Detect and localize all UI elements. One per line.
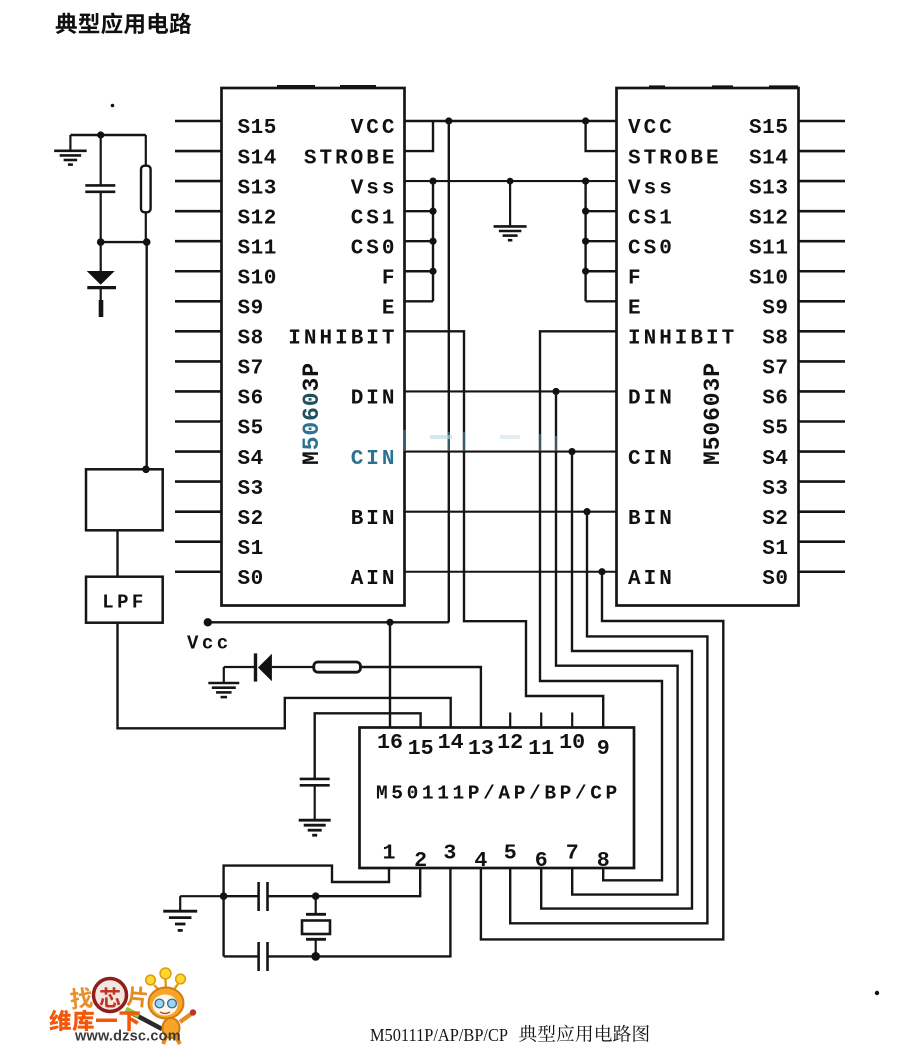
svg-text:9: 9 bbox=[597, 736, 610, 761]
wire C3 to U3 pin2 bbox=[268, 868, 421, 896]
svg-text:F: F bbox=[628, 267, 644, 290]
node C1 top bbox=[97, 131, 104, 138]
wire U1 INHIBIT to U3 pin9 bbox=[405, 331, 604, 727]
svg-text:S14: S14 bbox=[749, 147, 788, 170]
resistor R1 bottom lead bbox=[145, 212, 147, 242]
svg-text:16: 16 bbox=[377, 730, 403, 755]
node Vss mid bbox=[507, 178, 514, 185]
scan speck right bbox=[875, 991, 879, 995]
crystal X1 bottom lead bbox=[315, 939, 317, 956]
node crystal top bbox=[312, 892, 320, 900]
node crystal bottom bbox=[311, 952, 320, 961]
svg-text:DIN: DIN bbox=[628, 388, 675, 411]
LED D1 triangle bbox=[87, 271, 115, 285]
wire LPF to U3 pin14 bbox=[118, 623, 451, 729]
svg-text:S1: S1 bbox=[238, 538, 264, 561]
resistor R1 body bbox=[141, 166, 151, 213]
svg-text:S7: S7 bbox=[238, 358, 264, 381]
IC U1 M50603P body bbox=[222, 88, 405, 606]
svg-text:M50111P/AP/BP/CP: M50111P/AP/BP/CP bbox=[376, 783, 621, 805]
node R1/long-wire bbox=[143, 238, 151, 246]
svg-text:S15: S15 bbox=[238, 117, 277, 140]
wire C4 to U3 pin3 bbox=[268, 868, 451, 956]
U1 left pin labels S15-S0 bbox=[238, 117, 277, 591]
svg-text:10: 10 bbox=[559, 730, 585, 755]
wire BIN bus U1-U2 bbox=[405, 511, 617, 513]
svg-text:www.dzsc.com: www.dzsc.com bbox=[74, 1029, 181, 1045]
svg-text:4: 4 bbox=[474, 848, 487, 873]
wire VCC bus U1-U2 bbox=[405, 120, 617, 122]
capacitor C1 plates bbox=[85, 184, 115, 187]
wire U1 STROBE to VCC bbox=[405, 121, 434, 151]
node Vss left bbox=[429, 178, 436, 185]
svg-text:LPF: LPF bbox=[102, 592, 146, 614]
svg-text:S8: S8 bbox=[238, 328, 264, 351]
wire DIN bus U1-U2 bbox=[405, 390, 617, 392]
svg-text:6: 6 bbox=[535, 848, 548, 873]
LED D1 lead bbox=[100, 242, 102, 271]
capacitor C3 plates bbox=[257, 882, 260, 911]
U1 right pin labels bbox=[288, 117, 397, 591]
svg-text:S10: S10 bbox=[749, 267, 788, 290]
IC U2 M50603P body bbox=[617, 88, 799, 606]
crystal X1 bottom plate bbox=[306, 938, 326, 941]
svg-text:S5: S5 bbox=[762, 418, 788, 441]
svg-text:S0: S0 bbox=[238, 568, 264, 591]
node detector box top bbox=[142, 466, 150, 474]
U3 top pin numbers bbox=[377, 730, 610, 761]
node U1 CS0 bbox=[429, 238, 436, 245]
node Vcc rail pin16 tap bbox=[386, 619, 393, 626]
detector block (box) bbox=[86, 469, 163, 530]
node U1 CS1 bbox=[429, 208, 436, 215]
svg-text:F: F bbox=[382, 267, 398, 290]
scan speck left bbox=[111, 104, 115, 108]
svg-text:S11: S11 bbox=[238, 237, 277, 260]
capacitor C2 plates bbox=[300, 778, 330, 781]
svg-text:S12: S12 bbox=[749, 207, 788, 230]
svg-text:S5: S5 bbox=[238, 418, 264, 441]
ground crystal-left bbox=[180, 895, 223, 897]
crystal X1 top lead bbox=[315, 896, 317, 914]
ground middle (Vss) bbox=[509, 181, 511, 226]
diode D2 cathode bar bbox=[254, 653, 257, 681]
svg-text:S8: S8 bbox=[762, 328, 788, 351]
node U2 CS0 bbox=[582, 238, 589, 245]
resistor R1 top lead bbox=[145, 135, 147, 166]
svg-text:E: E bbox=[382, 298, 398, 321]
svg-text:S15: S15 bbox=[749, 117, 788, 140]
node VCC tap right bbox=[582, 117, 589, 124]
svg-text:CS1: CS1 bbox=[628, 207, 675, 230]
svg-text:S10: S10 bbox=[238, 267, 277, 290]
wire U3 pin15 branch bbox=[315, 713, 421, 779]
svg-text:CS1: CS1 bbox=[351, 207, 398, 230]
svg-text:3: 3 bbox=[443, 840, 456, 865]
svg-text:S7: S7 bbox=[762, 358, 788, 381]
capacitor C1 lower lead bbox=[100, 192, 102, 242]
LED D1 bottom stub bbox=[100, 288, 102, 300]
node U2 F bbox=[582, 268, 589, 275]
title text 典型应用电路 bbox=[56, 13, 192, 35]
svg-text:12: 12 bbox=[497, 730, 523, 755]
node Vcc rail end bbox=[204, 618, 212, 626]
IC U3 M50111P body bbox=[360, 728, 635, 869]
wire U2 INHIBIT to U3 pin8 bbox=[540, 331, 662, 880]
wire top-left node rail bbox=[70, 134, 145, 136]
U3 pin12 stub bbox=[509, 713, 511, 728]
node osc left top bbox=[220, 892, 228, 900]
svg-text:S1: S1 bbox=[762, 538, 788, 561]
capacitor C1 upper lead bbox=[100, 135, 102, 185]
svg-text:AIN: AIN bbox=[351, 568, 398, 591]
svg-text:BIN: BIN bbox=[628, 508, 675, 531]
svg-text:M50603P: M50603P bbox=[299, 362, 325, 465]
resistor R2 body bbox=[314, 662, 361, 672]
svg-text:CS0: CS0 bbox=[628, 237, 675, 260]
U1 S0-S15 input wires (left stubs) bbox=[175, 121, 222, 572]
wire BIN to U3 pin5 bbox=[510, 512, 707, 924]
svg-text:AIN: AIN bbox=[628, 568, 675, 591]
svg-text:CS0: CS0 bbox=[351, 237, 398, 260]
svg-text:M50111P/AP/BP/CP: M50111P/AP/BP/CP bbox=[370, 1025, 508, 1045]
wire AIN to U3 pin4 bbox=[481, 572, 723, 940]
node CIN tap bbox=[568, 448, 575, 455]
svg-text:INHIBIT: INHIBIT bbox=[288, 328, 397, 351]
wire U1 CS1/CS0/F/E tie chain bbox=[405, 181, 434, 301]
svg-text:Vcc: Vcc bbox=[187, 632, 232, 654]
wire VCC down-tap to Vcc rail bbox=[448, 121, 450, 622]
wire D2 leads bbox=[224, 666, 256, 668]
U2 right pin labels S15-S0 bbox=[749, 117, 788, 591]
diode D2 triangle bbox=[258, 654, 272, 681]
svg-text:E: E bbox=[628, 298, 644, 321]
node VCC tap left bbox=[445, 117, 452, 124]
scan border marks U2 top bbox=[649, 85, 665, 87]
svg-text:S4: S4 bbox=[762, 448, 788, 471]
scan artifact blue tint bbox=[405, 430, 557, 451]
capacitor C2 lower lead bbox=[314, 785, 316, 820]
crystal X1 body bbox=[302, 921, 330, 935]
svg-text:S6: S6 bbox=[238, 388, 264, 411]
wire Vcc supply rail bbox=[208, 621, 449, 623]
node U1 F bbox=[429, 268, 436, 275]
wire to C4 bbox=[224, 955, 259, 957]
wire U3 pin16 to Vcc rail bbox=[389, 622, 391, 727]
svg-text:S0: S0 bbox=[762, 568, 788, 591]
U3 bottom pin numbers bbox=[382, 840, 609, 873]
svg-text:S6: S6 bbox=[762, 388, 788, 411]
wire Vss bus U1-U2 bbox=[405, 180, 617, 182]
wire to C3 bbox=[224, 895, 259, 897]
U2 S0-S15 output wires (right stubs) bbox=[799, 121, 846, 572]
svg-text:STROBE: STROBE bbox=[628, 147, 722, 170]
svg-text:DIN: DIN bbox=[351, 388, 398, 411]
node D1 anode bbox=[97, 238, 105, 246]
svg-text:S3: S3 bbox=[762, 478, 788, 501]
U2 left pin labels bbox=[628, 117, 737, 591]
svg-text:S11: S11 bbox=[749, 237, 788, 260]
wire AIN bus U1-U2 bbox=[405, 571, 617, 573]
scan border marks U1 top bbox=[277, 85, 315, 88]
svg-text:S2: S2 bbox=[762, 508, 788, 531]
node DIN tap bbox=[552, 388, 559, 395]
node Vss right bbox=[582, 178, 589, 185]
svg-text:STROBE: STROBE bbox=[304, 147, 398, 170]
logo dzsc watermark bbox=[49, 968, 196, 1044]
svg-text:8: 8 bbox=[597, 848, 610, 873]
svg-text:M50603P: M50603P bbox=[700, 362, 726, 465]
svg-text:Vss: Vss bbox=[351, 177, 398, 200]
svg-text:CIN: CIN bbox=[351, 448, 398, 471]
svg-text:S2: S2 bbox=[238, 508, 264, 531]
svg-text:S13: S13 bbox=[749, 177, 788, 200]
wire C1-R1 bottom link bbox=[101, 241, 147, 243]
svg-text:1: 1 bbox=[382, 840, 395, 865]
wire R2 to U3 pin13 bbox=[360, 667, 481, 728]
svg-text:S13: S13 bbox=[238, 177, 277, 200]
LED D1 cathode bar bbox=[87, 286, 116, 289]
node AIN tap bbox=[598, 568, 605, 575]
node U2 CS1 bbox=[582, 208, 589, 215]
crystal X1 top plate bbox=[306, 913, 326, 916]
svg-text:S4: S4 bbox=[238, 448, 264, 471]
svg-text:S3: S3 bbox=[238, 478, 264, 501]
svg-text:11: 11 bbox=[528, 736, 554, 761]
wire CIN bus U1-U2 bbox=[405, 450, 617, 452]
svg-text:S14: S14 bbox=[238, 147, 277, 170]
ground for D2 bbox=[223, 667, 225, 683]
svg-text:CIN: CIN bbox=[628, 448, 675, 471]
node BIN tap bbox=[583, 508, 590, 515]
wire U3 pin1 to ground rail bbox=[224, 866, 389, 897]
svg-text:7: 7 bbox=[566, 840, 579, 865]
svg-text:BIN: BIN bbox=[351, 508, 398, 531]
svg-text:S9: S9 bbox=[762, 298, 788, 321]
wire CIN to U3 pin6 bbox=[541, 452, 692, 909]
wire detector to LPF bbox=[116, 530, 118, 576]
capacitor C4 plates bbox=[257, 942, 260, 971]
svg-text:INHIBIT: INHIBIT bbox=[628, 328, 737, 351]
svg-text:S9: S9 bbox=[238, 298, 264, 321]
svg-text:VCC: VCC bbox=[628, 117, 675, 140]
svg-text:15: 15 bbox=[408, 736, 434, 761]
U3 pin11 stub bbox=[540, 713, 542, 728]
svg-text:14: 14 bbox=[438, 730, 464, 755]
wire U2 STROBE to VCC bbox=[586, 121, 617, 151]
wire DIN to U3 pin7 bbox=[556, 391, 678, 894]
svg-text:5: 5 bbox=[504, 840, 517, 865]
LPF block body bbox=[86, 577, 163, 623]
ground top-left bbox=[69, 135, 71, 151]
U3 pin10 stub bbox=[571, 713, 573, 728]
svg-text:VCC: VCC bbox=[351, 117, 398, 140]
wire R1 node to detector box bbox=[145, 242, 147, 469]
svg-text:S12: S12 bbox=[238, 207, 277, 230]
svg-text:13: 13 bbox=[468, 736, 494, 761]
wire osc left vertical bbox=[222, 896, 224, 956]
wire U2 CS1/CS0/F/E tie chain bbox=[586, 181, 617, 301]
svg-text:Vss: Vss bbox=[628, 177, 675, 200]
ground below C2 bbox=[299, 819, 331, 822]
